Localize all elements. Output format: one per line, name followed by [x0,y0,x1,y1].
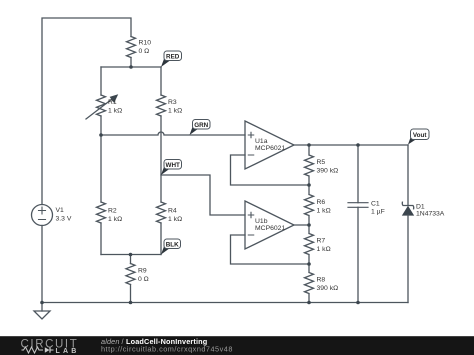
svg-text:U1b: U1b [255,218,268,225]
flag WHT [161,160,182,176]
node R9 bottom junction [129,301,133,305]
label U1a [255,138,285,152]
wire U1b feedback (minus input to R7/R8 node) [231,235,310,264]
svg-text:R3: R3 [168,99,177,106]
wire R3 bottom to R4 top (WHT node vertical) [160,116,162,202]
label R4 value [168,208,182,224]
footer CircuitLab logo [21,338,80,355]
label R8 value [317,277,339,293]
node R5 top junction [307,143,311,147]
node R9 top junction [129,253,133,257]
svg-text:1 µF: 1 µF [371,209,385,216]
wire V1 top to R10 top (top loop) [42,18,131,205]
label R7 value [317,238,331,254]
resistor R7 [305,225,314,264]
label R1 value [108,99,122,115]
wire GRN node horizontal with hop over R3 branch [101,132,245,135]
label C1 value [371,201,385,216]
flag Vout [408,129,429,145]
svg-text:http://circuitlab.com/crxqxnd7: http://circuitlab.com/crxqxnd745v48 [101,345,233,354]
resistor R3 [157,95,166,116]
arrow of variable resistor R1 [86,99,112,119]
svg-text:1 kΩ: 1 kΩ [108,216,122,223]
svg-text:1N4733A: 1N4733A [416,211,445,218]
footer title text [101,337,207,346]
resistor R9 [126,264,135,285]
resistor R1 (variable) [97,95,106,116]
label R6 value [317,199,331,215]
footer bar [0,336,474,355]
flag GRN [190,120,211,136]
svg-text:R10: R10 [139,40,152,47]
svg-text:U1a: U1a [255,138,268,145]
svg-text:3.3 V: 3.3 V [56,216,72,223]
node R10 bottom junction [129,65,133,69]
flag BLK [161,239,181,255]
label R10 value [139,40,152,56]
node R5/R6 junction [307,183,311,187]
wire R1 bottom lead [100,116,102,135]
wire R9 bottom lead [130,285,132,303]
node ground junction [40,301,44,305]
svg-text:WHT: WHT [166,162,180,169]
voltage source V1 [32,205,53,226]
wire right drop to R3 [160,67,162,95]
svg-text:390 kΩ: 390 kΩ [317,168,339,175]
svg-text:1 kΩ: 1 kΩ [317,208,331,215]
label R3 value [168,99,182,115]
node R6/R7 junction [307,223,311,227]
wire left drop to R1 [100,67,102,95]
svg-text:R5: R5 [317,159,326,166]
wire R1/R2 vertical link [100,135,102,202]
op-amp U1b [245,201,294,249]
svg-text:0 Ω: 0 Ω [139,48,150,55]
svg-text:C1: C1 [371,201,380,208]
wire R4 bottom lead [160,223,162,255]
svg-text:MCP6021: MCP6021 [255,145,285,152]
svg-text:R2: R2 [108,208,117,215]
svg-text:R1: R1 [108,99,117,106]
wire WHT to U1b plus input [161,175,245,215]
svg-text:1 kΩ: 1 kΩ [168,216,182,223]
svg-text:R8: R8 [317,277,326,284]
wire U1a feedback (minus input to R5/R6 node) [231,155,310,185]
label R2 value [108,208,122,224]
svg-text:V1: V1 [56,207,65,214]
svg-text:390 kΩ: 390 kΩ [317,285,339,292]
wire U1b output [294,224,309,226]
svg-text:R6: R6 [317,199,326,206]
resistor R4 [157,202,166,223]
node R1 bottom junction [99,133,103,137]
svg-text:GRN: GRN [194,122,208,129]
wire bottom rail [42,302,408,304]
resistor R8 [305,264,314,303]
svg-text:BLK: BLK [166,241,179,248]
svg-text:LAB: LAB [56,348,80,355]
svg-text:R9: R9 [138,268,147,275]
svg-text:RED: RED [166,53,180,60]
node C1 bottom junction [356,301,360,305]
wire R9 top lead [130,255,132,264]
svg-text:1 kΩ: 1 kΩ [108,108,122,115]
capacitor C1 [357,145,359,203]
ground [34,311,50,319]
resistor R2 [97,202,106,223]
label D1 value [416,204,445,218]
svg-text:R7: R7 [317,238,326,245]
diode D1 (zener) [407,145,409,206]
resistor R6 [305,185,314,225]
svg-text:R4: R4 [168,208,177,215]
flag RED [161,51,182,67]
node C1 top junction [356,143,360,147]
wire BLK node horizontal [101,254,161,256]
op-amp U1a [245,121,294,169]
svg-text:Vout: Vout [413,132,427,139]
svg-text:D1: D1 [416,204,425,211]
node R8 bottom junction [307,301,311,305]
wire R10 bottom lead [130,58,132,68]
svg-text:1 kΩ: 1 kΩ [168,108,182,115]
label V1 value [56,207,72,223]
wire node RED horizontal [101,66,161,68]
resistor R10 [127,37,136,58]
label U1b [255,218,285,232]
wire V1 bottom to ground [41,226,43,312]
resistor R5 [305,145,314,185]
label R9 value [138,268,149,284]
svg-text:1 kΩ: 1 kΩ [317,246,331,253]
wire U1a output rail [294,144,408,146]
label R5 value [317,159,339,175]
node R7/R8 junction [307,262,311,266]
svg-text:0 Ω: 0 Ω [138,276,149,283]
wire R2 bottom lead [100,223,102,255]
svg-text:MCP6021: MCP6021 [255,225,285,232]
